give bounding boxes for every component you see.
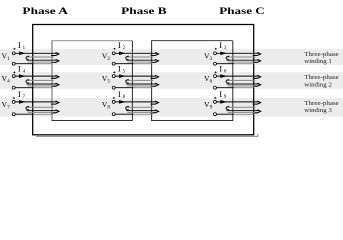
- terminal node - of V7: [12, 113, 15, 116]
- current arrow I4: [19, 74, 26, 78]
- coil V4: top lead wire: [15, 75, 56, 77]
- svg-text:winding 3: winding 3: [304, 107, 332, 114]
- coil V5: right hook 1: [151, 75, 159, 78]
- coil V8: top lead wire: [115, 101, 156, 103]
- three-phase winding band 2 (shaded): [0, 72, 343, 89]
- coil V9: bottom lead wire: [217, 113, 234, 115]
- plus sign of V7: [13, 97, 15, 99]
- coil V7: top lead wire: [15, 101, 56, 103]
- inner box 1 left edge (grey): [51, 41, 53, 121]
- svg-text:I: I: [118, 89, 121, 99]
- plus sign of V1: [13, 48, 15, 50]
- svg-text:Phase C: Phase C: [219, 6, 265, 17]
- coil V3: bottom lead wire: [217, 63, 234, 65]
- coil V9: left turn: [226, 106, 229, 109]
- terminal node - of V8: [112, 113, 115, 116]
- terminal node - of V6: [214, 86, 217, 89]
- coil V1: front conductor 2: [27, 59, 57, 61]
- terminal node - of V1: [12, 62, 15, 65]
- coil V8: right hook 2: [151, 110, 159, 113]
- coil V1: left turn: [26, 56, 29, 59]
- svg-text:Phase B: Phase B: [121, 6, 167, 17]
- svg-text:I: I: [118, 40, 121, 50]
- outer box hidden back-bottom edge (grey): [36, 134, 258, 137]
- coil V1: bottom lead wire: [15, 63, 34, 65]
- svg-text:I: I: [219, 40, 222, 50]
- svg-text:winding 1: winding 1: [304, 58, 332, 65]
- plus sign of V4: [13, 71, 15, 73]
- coil V6: right hook 1: [253, 75, 261, 78]
- outer stator box (black): [33, 25, 254, 135]
- current arrow I2: [119, 51, 126, 55]
- terminal node + of V1: [12, 52, 15, 55]
- coil V4: back conductor 2 (grey): [28, 85, 54, 87]
- plus sign of V6: [214, 71, 216, 73]
- terminal node + of V9: [214, 100, 217, 103]
- inner box 2 right edge: [232, 41, 234, 121]
- svg-text:Phase A: Phase A: [22, 6, 68, 17]
- inner box 1 bottom edge: [52, 120, 133, 122]
- coil V3: left turn: [226, 56, 229, 59]
- svg-text:I: I: [18, 64, 21, 74]
- coil V4: bottom lead wire: [15, 87, 34, 89]
- coil V8: bottom lead wire: [115, 113, 133, 115]
- coil V9: back conductor 2 (grey): [228, 111, 255, 113]
- coil V9: front conductor 2: [227, 110, 259, 112]
- coil V9: top lead wire: [217, 101, 259, 103]
- current arrow I5: [119, 74, 126, 78]
- coil V3: right hook 1: [253, 52, 261, 55]
- inner box 1 right edge: [131, 41, 133, 121]
- coil V5: back conductor 2 (grey): [127, 85, 152, 87]
- terminal node + of V7: [12, 100, 15, 103]
- coil V6: left turn: [226, 80, 229, 83]
- coil V6: right hook 2: [253, 83, 261, 86]
- svg-text:winding 2: winding 2: [304, 81, 332, 88]
- coil V6: back conductor 1 (grey): [227, 79, 256, 81]
- coil V3: back conductor 2 (grey): [228, 61, 255, 63]
- terminal node + of V2: [112, 52, 115, 55]
- coil V5: front conductor 2: [126, 83, 156, 85]
- coil V1: top lead wire: [15, 52, 56, 54]
- coil V3: front conductor 2: [227, 59, 259, 61]
- plus sign of V3: [215, 48, 217, 50]
- coil V1: back conductor 2 (grey): [28, 61, 54, 63]
- inner box 2 top edge: [151, 40, 233, 42]
- coil V7: bottom lead wire: [15, 113, 34, 115]
- svg-text:I: I: [219, 89, 222, 99]
- coil V5: left turn: [126, 80, 129, 83]
- coil V4: back conductor 1 (grey): [27, 79, 54, 81]
- coil V2: back conductor 1 (grey): [126, 56, 153, 58]
- svg-text:Three-phase: Three-phase: [304, 100, 339, 107]
- coil V4: front conductor 2: [27, 83, 57, 85]
- coil V4: left turn: [26, 80, 29, 83]
- current arrow I8: [119, 100, 126, 104]
- coil V5: back conductor 1 (grey): [126, 79, 153, 81]
- coil V7: back conductor 2 (grey): [28, 111, 54, 113]
- coil V1: back conductor 1 (grey): [27, 56, 54, 58]
- coil V9: back conductor 1 (grey): [227, 106, 256, 108]
- terminal node + of V6: [214, 75, 217, 78]
- current arrow I9: [220, 100, 227, 104]
- three-phase winding band 1 (shaded): [0, 49, 343, 65]
- coil V5: right hook 2: [151, 83, 159, 86]
- coil V6: top lead wire: [217, 75, 259, 77]
- terminal node - of V4: [12, 86, 15, 89]
- svg-text:I: I: [219, 64, 222, 74]
- coil V1: right hook 1: [51, 52, 59, 55]
- inner box 2 left edge: [151, 41, 153, 121]
- coil V2: bottom lead wire: [115, 63, 133, 65]
- coil V1: right hook 2: [51, 59, 59, 62]
- coil V7: front conductor 2: [27, 110, 57, 112]
- plus sign of V2: [113, 48, 115, 50]
- coil V5: top lead wire: [115, 75, 156, 77]
- current arrow I1: [19, 51, 26, 55]
- coil V2: back conductor 2 (grey): [127, 61, 152, 63]
- terminal node + of V5: [112, 75, 115, 78]
- coil V5: bottom lead wire: [115, 87, 133, 89]
- coil V2: right hook 1: [151, 52, 159, 55]
- coil V6: front conductor 2: [227, 83, 259, 85]
- svg-text:Three-phase: Three-phase: [304, 51, 339, 58]
- coil V7: back conductor 1 (grey): [27, 106, 54, 108]
- coil V2: front conductor 2: [126, 59, 156, 61]
- inner box 2 bottom edge: [151, 120, 233, 122]
- coil V8: back conductor 2 (grey): [127, 111, 152, 113]
- coil V9: right hook 2: [253, 110, 261, 113]
- terminal node + of V4: [12, 75, 15, 78]
- coil V8: right hook 1: [151, 101, 159, 104]
- coil V8: left turn: [126, 106, 129, 109]
- coil V7: right hook 1: [51, 101, 59, 104]
- plus sign of V9: [214, 97, 216, 99]
- coil V7: left turn: [26, 106, 29, 109]
- coil V6: back conductor 2 (grey): [228, 85, 255, 87]
- coil V8: back conductor 1 (grey): [126, 106, 153, 108]
- coil V8: front conductor 2: [126, 110, 156, 112]
- svg-text:Three-phase: Three-phase: [304, 74, 339, 81]
- coil V7: right hook 2: [51, 110, 59, 113]
- coil V9: right hook 1: [253, 101, 261, 104]
- current arrow I6: [220, 74, 227, 78]
- terminal node - of V9: [214, 113, 217, 116]
- coil V3: back conductor 1 (grey): [227, 56, 256, 58]
- coil V2: top lead wire: [115, 52, 156, 54]
- current arrow I7: [19, 100, 26, 104]
- three-phase winding band 3 (shaded): [0, 98, 343, 117]
- coil V4: right hook 1: [51, 75, 59, 78]
- plus sign of V5: [113, 71, 115, 73]
- terminal node + of V8: [112, 100, 115, 103]
- inner box 1 top edge (grey): [51, 40, 132, 42]
- terminal node - of V3: [214, 62, 217, 65]
- coil V6: bottom lead wire: [217, 87, 234, 89]
- terminal node - of V5: [112, 86, 115, 89]
- coil V3: right hook 2: [253, 59, 261, 62]
- current arrow I3: [220, 51, 227, 55]
- svg-text:I: I: [18, 89, 21, 99]
- terminal node + of V3: [214, 52, 217, 55]
- coil V2: right hook 2: [151, 59, 159, 62]
- svg-text:I: I: [118, 64, 121, 74]
- plus sign of V8: [113, 97, 115, 99]
- coil V2: left turn: [126, 56, 129, 59]
- coil V3: top lead wire: [217, 52, 259, 54]
- coil V4: right hook 2: [51, 83, 59, 86]
- svg-text:I: I: [18, 40, 21, 50]
- terminal node - of V2: [112, 62, 115, 65]
